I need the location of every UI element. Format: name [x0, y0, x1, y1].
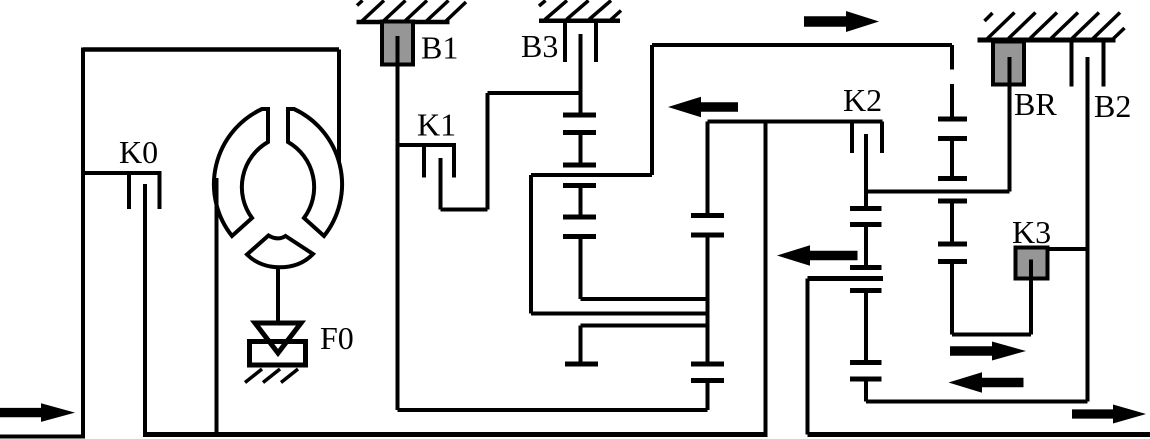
svg-text:B3: B3: [521, 28, 558, 64]
svg-text:B1: B1: [421, 30, 458, 66]
svg-text:K3: K3: [1012, 214, 1051, 250]
svg-text:K0: K0: [119, 134, 158, 170]
svg-text:K2: K2: [843, 82, 882, 118]
svg-text:F0: F0: [320, 320, 354, 356]
svg-text:K1: K1: [417, 107, 456, 143]
svg-text:B2: B2: [1094, 88, 1131, 124]
svg-text:BR: BR: [1014, 86, 1057, 122]
